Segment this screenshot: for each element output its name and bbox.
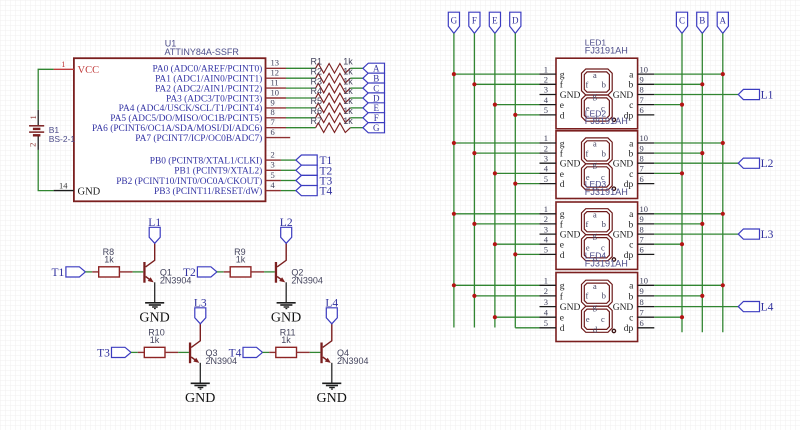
pin 8 GND of LED4	[613, 297, 655, 313]
svg-text:1k: 1k	[343, 96, 353, 106]
svg-text:2: 2	[544, 75, 548, 85]
svg-text:PA4 (ADC4/USCK/SCL/T1/PCINT4): PA4 (ADC4/USCK/SCL/T1/PCINT4)	[119, 103, 263, 114]
resistor R6 1k	[311, 106, 354, 123]
net flag A (top)	[717, 12, 728, 33]
net flag T2	[183, 267, 217, 279]
svg-text:GND: GND	[560, 303, 581, 313]
svg-text:a: a	[593, 211, 597, 220]
svg-text:f: f	[586, 292, 589, 301]
svg-text:GND: GND	[613, 231, 634, 241]
svg-text:L2: L2	[761, 158, 774, 170]
svg-text:1: 1	[544, 133, 548, 143]
ground below Q2	[271, 303, 301, 326]
pin 4 e of LED1	[540, 95, 565, 111]
wire resistor R3 to net flag C	[350, 87, 363, 89]
ground below Q1	[139, 303, 169, 326]
net flag L1 (right)	[738, 89, 773, 101]
svg-text:5: 5	[544, 174, 548, 184]
svg-text:a: a	[593, 140, 597, 149]
wire resistor R10 to base of Q3	[178, 351, 189, 353]
svg-text:R4: R4	[311, 86, 323, 96]
wire resistor R6 to net flag F	[350, 117, 363, 119]
svg-text:2: 2	[271, 150, 275, 160]
transistor Q1 2N3904	[143, 243, 191, 285]
net flag L2	[280, 217, 293, 243]
svg-text:T4: T4	[320, 186, 333, 198]
wire emitter of Q1 to ground	[154, 282, 156, 303]
pin 1 g of LED1	[540, 64, 565, 80]
wire resistor R1 to net flag A	[350, 67, 363, 69]
wire T4 flag to resistor R11	[263, 351, 270, 353]
svg-text:GND: GND	[613, 303, 634, 313]
svg-text:BS-2-1: BS-2-1	[49, 134, 76, 144]
net flag L2 (right)	[738, 158, 773, 170]
svg-text:T3: T3	[97, 347, 110, 359]
net flag B (top)	[697, 12, 708, 33]
segment letters of LED2	[586, 140, 606, 193]
pin 5 d of LED1	[540, 105, 565, 121]
svg-text:c: c	[601, 315, 605, 324]
svg-text:VCC: VCC	[78, 65, 100, 76]
svg-text:R7: R7	[311, 116, 323, 126]
wire emitter of Q2 to ground	[285, 282, 287, 303]
pin 10 a of LED2	[629, 133, 654, 149]
svg-text:f: f	[586, 149, 589, 158]
svg-text:g: g	[560, 139, 565, 149]
svg-text:PA3 (ADC3/T0/PCINT3): PA3 (ADC3/T0/PCINT3)	[166, 93, 262, 104]
svg-text:e: e	[586, 315, 590, 324]
net flag D	[363, 93, 385, 103]
svg-text:8: 8	[640, 85, 644, 95]
svg-text:7: 7	[271, 117, 275, 127]
wire bus E vertical	[494, 33, 496, 327]
svg-text:1: 1	[544, 64, 548, 74]
svg-text:GND: GND	[560, 231, 581, 241]
wire PB3 pin to net flag T4	[281, 190, 296, 192]
svg-text:13: 13	[271, 58, 280, 68]
wire resistor R4 to net flag D	[350, 97, 363, 99]
pin 8 GND of LED2	[613, 153, 655, 169]
net flag F	[363, 113, 385, 123]
svg-text:PA5 (ADC5/DO/MISO/OC1B/PCINT5): PA5 (ADC5/DO/MISO/OC1B/PCINT5)	[110, 113, 262, 124]
svg-text:g: g	[560, 210, 565, 220]
wire G to display 4	[454, 284, 540, 286]
svg-text:FJ3191AH: FJ3191AH	[585, 116, 628, 126]
svg-text:PA1 (ADC1/AIN0/PCINT1): PA1 (ADC1/AIN0/PCINT1)	[155, 74, 262, 85]
svg-text:T2: T2	[183, 267, 196, 279]
wire resistor R9 to base of Q2	[264, 271, 275, 273]
svg-text:6: 6	[271, 127, 275, 137]
svg-text:GND: GND	[613, 160, 634, 170]
resistor R3 1k	[311, 76, 354, 93]
svg-text:R2: R2	[311, 66, 323, 76]
transistor Q4 2N3904	[320, 324, 368, 366]
svg-text:8: 8	[640, 153, 644, 163]
pin 11 PA2 of U1	[155, 78, 286, 95]
pin 10 PA3 of U1	[166, 87, 286, 104]
svg-text:FJ3191AH: FJ3191AH	[585, 46, 628, 56]
pin 3 GND of LED2	[540, 153, 581, 169]
svg-text:T4: T4	[229, 347, 242, 359]
pin 4 PB3 of U1	[154, 180, 281, 197]
wire display 4 pin8 to net flag L4	[654, 306, 738, 308]
pin 1 g of LED2	[540, 133, 565, 149]
svg-text:3: 3	[544, 297, 548, 307]
svg-text:3: 3	[271, 160, 275, 170]
wire emitter of Q3 to ground	[199, 363, 201, 384]
wire display 1 pin8 to net flag L1	[654, 94, 738, 96]
svg-text:1k: 1k	[343, 57, 353, 67]
wire resistor R7 to net flag G	[350, 127, 363, 129]
pin 2 PB0 of U1	[150, 150, 281, 167]
svg-text:2N3904: 2N3904	[291, 275, 323, 285]
svg-text:c: c	[629, 314, 633, 324]
wire PA0 pin to resistor R1	[286, 67, 316, 69]
svg-text:a: a	[593, 282, 597, 291]
pin 13 PA0 of U1	[152, 58, 286, 75]
svg-text:R3: R3	[311, 76, 323, 86]
pin 2 f of LED3	[540, 214, 564, 230]
pin 4 e of LED4	[540, 307, 565, 323]
pin 6 dp of LED2	[624, 174, 655, 190]
pin 1 VCC of U1	[54, 59, 99, 76]
svg-text:b: b	[629, 292, 634, 302]
pin 3 GND of LED1	[540, 85, 581, 101]
svg-text:5: 5	[544, 245, 548, 255]
svg-text:5: 5	[544, 318, 548, 328]
pin 2 f of LED4	[540, 286, 564, 302]
svg-text:D: D	[373, 93, 380, 103]
svg-text:e: e	[560, 170, 564, 180]
wire bus G vertical	[453, 33, 455, 327]
wire PA3 pin to resistor R4	[286, 97, 316, 99]
svg-text:c: c	[629, 170, 633, 180]
svg-text:7: 7	[640, 164, 644, 174]
svg-text:c: c	[629, 241, 633, 251]
svg-text:e: e	[560, 101, 564, 111]
svg-text:12: 12	[271, 68, 280, 78]
svg-text:E: E	[374, 103, 380, 113]
pin 7 c of LED2	[629, 164, 654, 180]
svg-text:6: 6	[640, 174, 644, 184]
svg-text:1k: 1k	[343, 66, 353, 76]
net flag T1	[296, 155, 333, 167]
7-segment display LED4 FJ3191AH body	[556, 251, 638, 342]
7-segment display LED1 FJ3191AH body	[556, 38, 638, 129]
wire emitter of Q4 to ground	[331, 363, 333, 384]
net flag D (top)	[510, 12, 521, 33]
segment letters of LED4	[586, 282, 606, 335]
svg-text:T1: T1	[52, 267, 65, 279]
net flag L3 (right)	[738, 229, 773, 241]
svg-text:G: G	[373, 123, 380, 133]
7-segment digit glyph of LED2	[582, 138, 616, 191]
wire C to display 2	[654, 172, 682, 174]
wire bus A vertical	[722, 33, 724, 332]
pin 1 g of LED3	[540, 204, 565, 220]
pin 8 GND of LED3	[613, 224, 655, 240]
wire VCC net: U1 pin1 to battery B1 plus	[38, 69, 53, 110]
wire resistor R8 to base of Q1	[133, 271, 144, 273]
wire bus F vertical	[473, 33, 475, 327]
wire PB0 pin to net flag T1	[281, 159, 296, 161]
svg-text:d: d	[560, 111, 565, 121]
svg-text:g: g	[560, 282, 565, 292]
svg-text:PB2 (PCINT10/INT0/OC0A/CKOUT): PB2 (PCINT10/INT0/OC0A/CKOUT)	[116, 176, 262, 187]
pin 5 d of LED4	[540, 318, 565, 334]
svg-text:R5: R5	[311, 96, 323, 106]
svg-text:FJ3191AH: FJ3191AH	[585, 258, 628, 268]
wire T3 flag to resistor R10	[131, 351, 138, 353]
pin 10 a of LED4	[629, 276, 654, 292]
svg-text:1k: 1k	[343, 116, 353, 126]
svg-text:a: a	[593, 71, 597, 80]
svg-text:1k: 1k	[104, 255, 114, 265]
net flag C	[363, 83, 385, 93]
wire resistor R5 to net flag E	[350, 107, 363, 109]
net flag T3	[296, 175, 333, 187]
pin 3 GND of LED3	[540, 224, 581, 240]
svg-text:d: d	[560, 324, 565, 334]
resistor R7 1k	[311, 116, 354, 133]
wire F to display 2	[474, 152, 539, 154]
transistor Q2 2N3904	[275, 243, 323, 285]
wire bus C vertical	[681, 33, 683, 332]
svg-text:10: 10	[271, 87, 280, 97]
svg-text:6: 6	[640, 245, 644, 255]
svg-text:G: G	[451, 15, 458, 25]
pin 7 PA6 of U1	[92, 117, 286, 134]
wire display 3 pin8 to net flag L3	[654, 233, 738, 235]
svg-text:8: 8	[271, 107, 275, 117]
svg-text:11: 11	[271, 78, 279, 88]
IC U1 ATTINY84A-SSFR body	[74, 38, 266, 201]
svg-text:2N3904: 2N3904	[337, 356, 369, 366]
svg-text:10: 10	[640, 64, 649, 74]
svg-text:9: 9	[640, 143, 644, 153]
pin 7 c of LED4	[629, 307, 654, 323]
svg-text:7: 7	[640, 95, 644, 105]
wire A to display 2	[654, 142, 723, 144]
wire F to display 4	[474, 295, 539, 297]
ground below Q4	[317, 383, 347, 406]
svg-text:GND: GND	[560, 160, 581, 170]
net flag T1	[52, 267, 86, 279]
svg-text:7: 7	[640, 234, 644, 244]
net flag E (top)	[489, 12, 500, 33]
wire PA1 pin to resistor R2	[286, 77, 316, 79]
pin 6 dp of LED3	[624, 245, 655, 261]
wire E to display 2	[495, 172, 540, 174]
pin 6 dp of LED4	[624, 318, 655, 334]
svg-text:L4: L4	[761, 302, 774, 314]
wire PA4 pin to resistor R5	[286, 107, 316, 109]
svg-text:1k: 1k	[236, 255, 246, 265]
pin 14 GND of U1	[54, 180, 101, 197]
wire A to display 1	[654, 73, 723, 75]
svg-text:b: b	[602, 292, 606, 301]
svg-text:L1: L1	[761, 90, 774, 102]
svg-text:14: 14	[59, 180, 68, 190]
svg-text:GND: GND	[139, 311, 169, 326]
svg-text:C: C	[373, 83, 379, 93]
7-segment display LED3 FJ3191AH body	[556, 179, 638, 269]
pin 9 b of LED2	[629, 143, 655, 159]
pin 2 f of LED2	[540, 143, 564, 159]
svg-text:D: D	[512, 15, 519, 25]
resistor R8 1k	[92, 247, 132, 277]
svg-text:8: 8	[640, 224, 644, 234]
resistor R4 1k	[311, 86, 354, 103]
pin 6 PA7 of U1	[135, 127, 290, 144]
pin 7 c of LED3	[629, 234, 654, 250]
svg-text:PA7 (PCINT7/ICP/OC0B/ADC7): PA7 (PCINT7/ICP/OC0B/ADC7)	[135, 133, 262, 144]
resistor R1 1k	[311, 57, 354, 74]
svg-text:GND: GND	[613, 91, 634, 101]
wire PA5 pin to resistor R6	[286, 117, 316, 119]
svg-text:b: b	[602, 149, 606, 158]
svg-text:GND: GND	[317, 391, 347, 406]
svg-text:ATTINY84A-SSFR: ATTINY84A-SSFR	[165, 47, 240, 57]
wire B to display 3	[654, 223, 702, 225]
svg-text:b: b	[629, 220, 634, 230]
resistor R9 1k	[224, 247, 264, 277]
net flag T3	[97, 347, 131, 359]
svg-text:B: B	[373, 74, 379, 84]
svg-text:GND: GND	[78, 186, 101, 197]
svg-text:GND: GND	[560, 91, 581, 101]
wire C to display 3	[654, 243, 682, 245]
wire G to display 3	[454, 213, 540, 215]
svg-text:B: B	[699, 15, 705, 25]
pin 5 PB2 of U1	[116, 170, 281, 187]
svg-text:FJ3191AH: FJ3191AH	[585, 187, 628, 197]
svg-text:b: b	[629, 150, 634, 160]
svg-text:6: 6	[640, 318, 644, 328]
wire T1 flag to resistor R8	[85, 271, 92, 273]
svg-text:3: 3	[544, 224, 548, 234]
svg-text:dp: dp	[624, 324, 634, 334]
svg-text:e: e	[560, 314, 564, 324]
net flag L1	[148, 217, 161, 243]
pin 8 GND of LED1	[613, 85, 655, 101]
svg-text:PB3 (PCINT11/RESET/dW): PB3 (PCINT11/RESET/dW)	[154, 186, 262, 197]
svg-text:PA6 (PCINT6/OC1A/SDA/MOSI/DI/A: PA6 (PCINT6/OC1A/SDA/MOSI/DI/ADC6)	[92, 123, 262, 134]
transistor Q3 2N3904	[189, 324, 237, 366]
pin 12 PA1 of U1	[155, 68, 286, 85]
pin 9 PA4 of U1	[119, 97, 286, 114]
svg-text:9: 9	[640, 214, 644, 224]
svg-text:6: 6	[640, 105, 644, 115]
svg-text:2: 2	[27, 143, 37, 147]
wire E to display 4	[495, 316, 540, 318]
7-segment digit glyph of LED1	[582, 69, 616, 122]
svg-text:5: 5	[544, 105, 548, 115]
wire E to display 1	[495, 104, 540, 106]
net flag T4	[296, 186, 333, 198]
battery B1 BS-2-1	[27, 110, 75, 150]
wire bus B vertical	[701, 33, 703, 332]
svg-text:b: b	[629, 81, 634, 91]
wire C to display 4	[654, 316, 682, 318]
svg-text:1k: 1k	[343, 76, 353, 86]
net flag C (top)	[676, 12, 687, 33]
svg-text:g: g	[560, 71, 565, 81]
svg-text:R1: R1	[311, 57, 323, 67]
svg-text:PA0 (ADC0/AREF/PCINT0): PA0 (ADC0/AREF/PCINT0)	[152, 64, 262, 75]
wire C to display 1	[654, 104, 682, 106]
resistor R11 1k	[269, 328, 309, 358]
svg-text:E: E	[492, 15, 498, 25]
net flag T4	[229, 347, 263, 359]
pin 4 e of LED3	[540, 234, 565, 250]
pin 9 b of LED3	[629, 214, 655, 230]
wire PB2 pin to net flag T3	[281, 180, 296, 182]
pin 7 c of LED1	[629, 95, 654, 111]
svg-text:9: 9	[640, 286, 644, 296]
svg-text:L3: L3	[761, 229, 774, 241]
pin 10 a of LED1	[629, 64, 654, 80]
svg-text:1: 1	[61, 59, 65, 69]
resistor R10 1k	[138, 328, 178, 358]
ground below Q3	[185, 383, 215, 406]
svg-text:10: 10	[640, 204, 649, 214]
svg-text:GND: GND	[271, 311, 301, 326]
wire display 2 pin8 to net flag L2	[654, 162, 738, 164]
svg-text:2: 2	[544, 214, 548, 224]
resistor R2 1k	[311, 66, 354, 83]
pin 4 e of LED2	[540, 164, 565, 180]
svg-text:f: f	[586, 220, 589, 229]
svg-text:A: A	[373, 64, 380, 74]
svg-text:1k: 1k	[281, 335, 291, 345]
svg-text:5: 5	[271, 170, 275, 180]
wire F to display 3	[474, 223, 539, 225]
svg-text:9: 9	[640, 75, 644, 85]
wire A to display 4	[654, 284, 723, 286]
resistor R5 1k	[311, 96, 354, 113]
wire D to display 1	[515, 114, 539, 116]
wire resistor R11 to base of Q4	[310, 351, 321, 353]
svg-text:1k: 1k	[343, 86, 353, 96]
pin 6 dp of LED1	[624, 105, 655, 121]
svg-text:2: 2	[544, 143, 548, 153]
wire E to display 3	[495, 243, 540, 245]
pin 9 b of LED4	[629, 286, 655, 302]
svg-text:8: 8	[640, 297, 644, 307]
pin 2 f of LED1	[540, 75, 564, 91]
svg-text:PB0 (PCINT8/XTAL1/CLKI): PB0 (PCINT8/XTAL1/CLKI)	[150, 155, 263, 166]
svg-text:A: A	[720, 15, 727, 25]
wire G to display 2	[454, 142, 540, 144]
wire B to display 1	[654, 83, 702, 85]
svg-text:F: F	[374, 113, 379, 123]
svg-text:F: F	[472, 15, 477, 25]
pin 3 GND of LED4	[540, 297, 581, 313]
pin 8 PA5 of U1	[110, 107, 286, 124]
svg-text:10: 10	[640, 133, 649, 143]
svg-text:3: 3	[544, 85, 548, 95]
pin 9 b of LED1	[629, 75, 655, 91]
pin 5 d of LED2	[540, 174, 565, 190]
svg-text:7: 7	[640, 307, 644, 317]
net flag B	[363, 73, 385, 83]
svg-text:9: 9	[271, 97, 275, 107]
svg-text:f: f	[586, 80, 589, 89]
svg-text:d: d	[560, 251, 565, 261]
pin 10 a of LED3	[629, 204, 654, 220]
net flag L4 (right)	[738, 302, 773, 314]
